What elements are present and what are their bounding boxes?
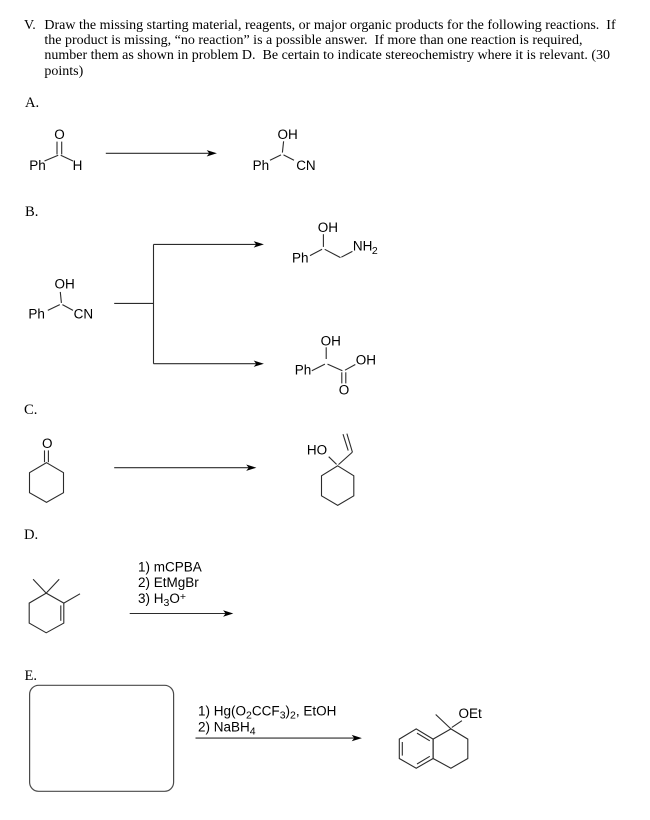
svg-text:O: O xyxy=(339,382,350,397)
svg-text:, EtOH: , EtOH xyxy=(296,704,337,719)
svg-text:O: O xyxy=(169,591,180,606)
svg-text:1) Hg(O: 1) Hg(O xyxy=(198,704,246,719)
arrow A xyxy=(106,150,217,156)
svg-text:2: 2 xyxy=(372,245,378,257)
svg-text:NH: NH xyxy=(353,238,373,253)
fork lines (section B) xyxy=(114,244,153,363)
arrow B top xyxy=(154,241,264,247)
svg-text:OH: OH xyxy=(318,220,338,235)
arrow D xyxy=(130,610,234,616)
svg-text:O: O xyxy=(54,127,65,142)
reagents D xyxy=(138,560,202,610)
svg-text:OH: OH xyxy=(356,353,376,368)
svg-text:2) NaBH: 2) NaBH xyxy=(198,720,250,735)
label C xyxy=(24,402,37,419)
2-amino-1-phenylethanol (section B product 1) xyxy=(310,234,352,257)
svg-text:2) EtMgBr: 2) EtMgBr xyxy=(138,575,199,590)
mandelonitrile (section A product) xyxy=(270,141,294,160)
1-ethoxy-1-methyltetralin (section E product) xyxy=(399,715,468,769)
svg-text:OH: OH xyxy=(55,277,75,292)
svg-text:+: + xyxy=(180,591,186,603)
svg-text:Ph: Ph xyxy=(29,158,46,173)
svg-text:H: H xyxy=(73,158,83,173)
svg-text:Ph: Ph xyxy=(28,307,45,322)
arrow B bottom xyxy=(154,361,264,367)
svg-text:1) mCPBA: 1) mCPBA xyxy=(138,560,202,575)
cyanohydrin (section B start material) xyxy=(48,292,73,311)
svg-text:CCF: CCF xyxy=(252,704,280,719)
label E xyxy=(25,668,38,685)
svg-text:O: O xyxy=(42,436,53,451)
svg-text:4: 4 xyxy=(250,726,256,738)
svg-text:Ph: Ph xyxy=(253,158,270,173)
1-vinylcyclohexanol (section C product) xyxy=(322,434,354,506)
cyclohexanone (section C reactant) xyxy=(30,450,64,502)
arrow C xyxy=(114,465,256,471)
svg-text:OH: OH xyxy=(321,333,341,348)
label A xyxy=(25,95,39,112)
label B xyxy=(25,204,38,221)
svg-text:3) H: 3) H xyxy=(138,591,164,606)
svg-text:HO: HO xyxy=(307,443,327,458)
arrow E xyxy=(196,735,362,741)
mandelic acid (section B product 2) xyxy=(312,347,356,383)
reagents E xyxy=(198,704,336,738)
svg-text:CN: CN xyxy=(74,307,94,322)
svg-text:OEt: OEt xyxy=(459,706,483,721)
label D xyxy=(24,527,38,544)
svg-text:Ph: Ph xyxy=(292,250,309,265)
answer box (section E) xyxy=(30,685,174,791)
benzaldehyde (section A reactant) xyxy=(45,142,74,161)
svg-text:Ph: Ph xyxy=(295,363,312,378)
header paragraph xyxy=(24,18,616,79)
svg-text:CN: CN xyxy=(296,158,316,173)
trimethylcyclohexene (section D reactant) xyxy=(29,579,80,633)
svg-text:OH: OH xyxy=(278,127,298,142)
